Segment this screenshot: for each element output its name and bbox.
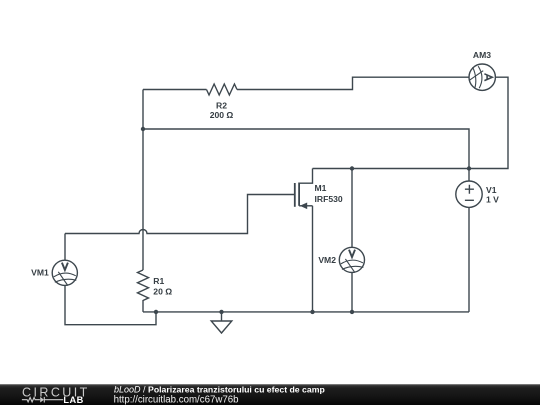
wire: R1 bottom lead	[142, 300, 144, 312]
svg-text:LAB: LAB	[63, 395, 83, 405]
svg-text:VM1: VM1	[31, 268, 49, 278]
transistor M1 drain branch	[299, 169, 312, 184]
wire: AM3 right, down, to top node junction	[469, 77, 508, 168]
logo schematic squiggle (resistor and diode)	[22, 397, 63, 403]
svg-text:AM3: AM3	[473, 50, 491, 60]
wire: VM2 bottom lead	[351, 273, 353, 312]
transistor M1 channel bar	[298, 183, 300, 206]
wire: M1 source down to bottom rail	[312, 206, 314, 312]
wire: VM1 top lead up to gate net	[64, 234, 66, 261]
ground	[211, 312, 232, 333]
svg-text:V1: V1	[486, 185, 497, 195]
junction: VM1 loop on bottom rail	[154, 310, 158, 314]
wire: R2 right to step up to AM3	[237, 77, 469, 89]
voltmeter VM2	[339, 247, 364, 272]
wire: top segment from left bus to R2	[143, 89, 207, 91]
wire: bottom rail	[143, 311, 469, 313]
junction: M1 source on bottom rail	[310, 310, 314, 314]
svg-text:20 Ω: 20 Ω	[153, 287, 172, 297]
wire: VM1 bottom loop to bottom rail junction	[65, 285, 156, 324]
resistor R2	[207, 84, 237, 95]
wire: left vertical bus upper (node from R2 left to R1 top)	[142, 90, 144, 271]
junction: ground on bottom rail	[219, 310, 223, 314]
ammeter AM3	[469, 64, 495, 90]
transistor M1 source arrow	[300, 203, 307, 210]
wire: VM2 top lead	[351, 169, 353, 248]
svg-text:1 V: 1 V	[486, 195, 499, 205]
wire: gate net from VM1 top, hop over left bus, to M1 gate	[65, 195, 295, 234]
svg-text:bLooD / Polarizarea tranzistor: bLooD / Polarizarea tranzistorului cu ef…	[114, 384, 325, 394]
svg-text:http://circuitlab.com/c67w76b: http://circuitlab.com/c67w76b	[114, 395, 239, 405]
footer bar	[0, 384, 540, 405]
voltmeter VM1	[52, 260, 77, 285]
wire: second horizontal from left bus to V1 top node	[143, 129, 469, 169]
svg-text:IRF530: IRF530	[315, 194, 343, 204]
svg-text:VM2: VM2	[318, 255, 336, 265]
junction: VM2 top on drain rail	[350, 166, 354, 170]
svg-text:M1: M1	[315, 183, 327, 193]
junction: VM2 bottom on bottom rail	[350, 310, 354, 314]
wire: drain rail from M1 drain to top node	[313, 168, 470, 170]
svg-text:R1: R1	[153, 276, 164, 286]
transistor M1 gate bar	[294, 183, 296, 207]
svg-text:R2: R2	[216, 100, 227, 110]
voltage source V1	[456, 181, 482, 207]
wire: V1 bottom lead down to bottom rail	[468, 207, 470, 312]
resistor R1	[138, 270, 149, 300]
wire: V1 top lead	[468, 169, 470, 182]
transistor M1 source branch	[299, 205, 312, 207]
junction: left bus / second horizontal	[141, 127, 145, 131]
junction: top node at V1	[467, 166, 471, 170]
svg-text:200 Ω: 200 Ω	[210, 110, 234, 120]
